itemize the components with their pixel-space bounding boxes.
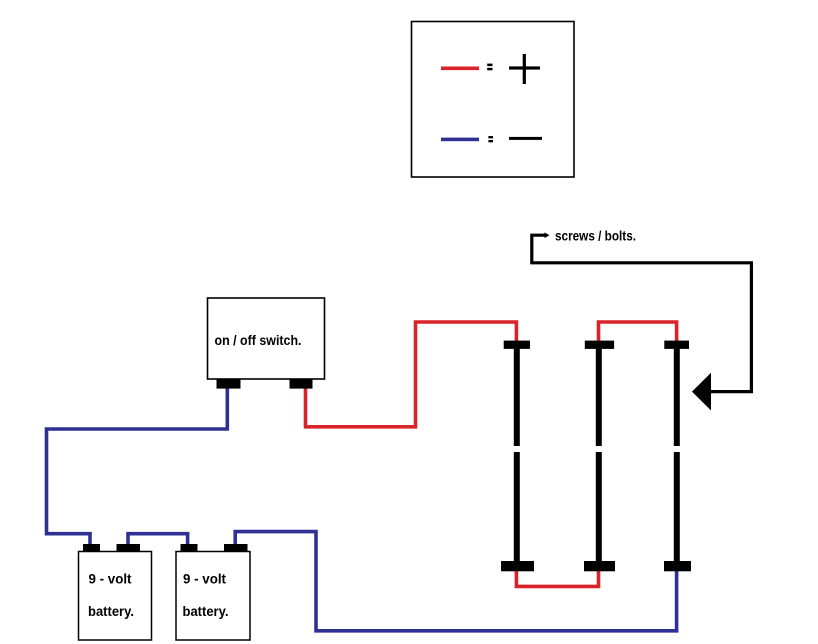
label "screws / bolts." bbox=[555, 228, 636, 244]
bolt 1 shank lower segment bbox=[514, 452, 520, 562]
switch terminal left bbox=[217, 379, 241, 388]
bolt 2 shank upper segment bbox=[596, 349, 602, 447]
on/off switch label bbox=[215, 332, 302, 348]
wire red: bolt 2 top to bolt 3 top bbox=[599, 322, 677, 344]
bolt 2 head (top cap) bbox=[585, 341, 614, 349]
bolt 3 head (top cap) bbox=[664, 341, 689, 349]
svg-text:on / off switch.: on / off switch. bbox=[215, 332, 302, 348]
bolt 3 shank upper segment bbox=[674, 349, 680, 447]
callout arrowhead pointing at bolt 3 bbox=[692, 373, 711, 411]
bolt 2 shank lower segment bbox=[596, 452, 602, 562]
equals sign (red row) bbox=[487, 64, 492, 71]
svg-text:9 - volt: 9 - volt bbox=[89, 571, 132, 587]
wire blue: battery B2 positive terminal to bolt 3 bottom bbox=[235, 532, 676, 631]
plus symbol (positive polarity) bbox=[509, 54, 540, 84]
battery B1 label bbox=[88, 571, 134, 620]
bolt 1 head (top cap) bbox=[504, 341, 530, 349]
battery B2 negative terminal bbox=[181, 544, 198, 552]
battery B2 positive terminal bbox=[224, 544, 248, 552]
minus symbol (negative polarity) bbox=[509, 137, 542, 140]
bolt 1 nut (bottom cap) bbox=[501, 561, 534, 571]
battery B1 positive terminal bbox=[117, 544, 141, 552]
wire blue: battery B1 positive to battery B2 negative terminal bbox=[128, 534, 188, 547]
svg-text:9 - volt: 9 - volt bbox=[183, 571, 226, 587]
battery B2 label bbox=[183, 571, 229, 620]
bolt 3 nut (bottom cap) bbox=[664, 561, 691, 571]
switch terminal right bbox=[290, 379, 313, 388]
battery B2 body bbox=[176, 552, 250, 641]
battery B1 negative terminal bbox=[83, 544, 100, 552]
callout tick arrow tip at label bbox=[545, 232, 550, 238]
svg-text:battery.: battery. bbox=[183, 603, 229, 619]
svg-text:battery.: battery. bbox=[88, 603, 134, 619]
legend red wire sample bbox=[441, 67, 479, 71]
wire red: bolt 1 bottom to bolt 2 bottom bbox=[516, 568, 598, 586]
svg-text:screws / bolts.: screws / bolts. bbox=[555, 228, 636, 244]
bolt 2 nut (bottom cap) bbox=[584, 561, 615, 571]
legend blue wire sample bbox=[441, 138, 479, 142]
wire blue: switch left terminal to battery B1 negative terminal bbox=[47, 388, 228, 547]
legend box bbox=[412, 22, 575, 178]
on/off switch body bbox=[208, 298, 325, 379]
callout wire: label to arrowhead bbox=[532, 235, 752, 391]
bolt 3 shank lower segment bbox=[674, 452, 680, 562]
equals sign (blue row) bbox=[488, 136, 493, 142]
wire red: switch right terminal to bolt 1 top bbox=[306, 322, 517, 427]
battery B1 body bbox=[79, 552, 152, 641]
bolt 1 shank upper segment bbox=[514, 349, 520, 447]
